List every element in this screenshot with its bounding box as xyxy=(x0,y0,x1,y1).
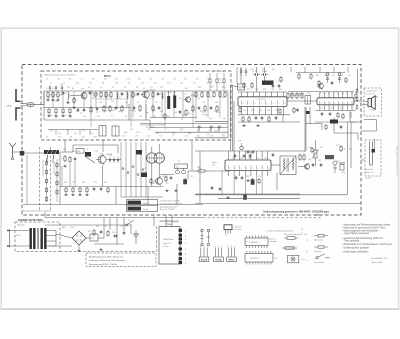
wire xyxy=(304,107,306,152)
svg-text:C3: C3 xyxy=(193,82,195,84)
vertical feed wire xyxy=(309,107,311,124)
capacitor C2 xyxy=(89,91,94,95)
ground xyxy=(85,193,88,195)
feed wires from enclosure top xyxy=(291,67,348,73)
svg-text:R63: R63 xyxy=(82,182,85,184)
coil L3 xyxy=(127,93,128,99)
svg-text:2k2: 2k2 xyxy=(111,101,114,103)
wire xyxy=(24,152,44,154)
svg-text:T5: T5 xyxy=(86,149,88,151)
svg-text:C42: C42 xyxy=(259,110,262,112)
svg-text:C14: C14 xyxy=(185,135,188,137)
svg-text:BC238: BC238 xyxy=(201,260,208,262)
wire xyxy=(151,147,153,153)
capacitor C40 xyxy=(320,163,323,167)
oscillator loop wire xyxy=(73,145,118,153)
resistor R45 xyxy=(310,73,312,80)
ground xyxy=(246,179,249,181)
svg-text:R61: R61 xyxy=(64,182,67,184)
IC2 audio power amplifier xyxy=(317,98,354,105)
FM tuner module dashed box xyxy=(41,71,231,140)
wire xyxy=(361,159,365,161)
svg-text:68: 68 xyxy=(128,82,130,84)
value labels xyxy=(316,75,351,110)
svg-text:Det.: Det. xyxy=(212,164,216,167)
svg-text:R21: R21 xyxy=(247,89,250,91)
FM-AM link verticals xyxy=(121,142,146,197)
IC3 stereo decoder xyxy=(225,160,271,171)
capacitor C6 xyxy=(77,108,80,112)
wire xyxy=(347,168,349,195)
svg-text:C9: C9 xyxy=(124,87,126,89)
svg-text:C16: C16 xyxy=(182,115,185,117)
wire xyxy=(10,230,30,232)
FM dipole antenna xyxy=(15,89,20,121)
resistor R16 xyxy=(48,108,50,115)
svg-text:Sicherungswiderstand: Sicherungswiderstand xyxy=(284,233,302,236)
svg-text:R9: R9 xyxy=(136,87,138,89)
wire xyxy=(109,218,111,231)
power value labels xyxy=(62,220,130,234)
svg-text:12k: 12k xyxy=(125,102,128,104)
svg-text:220: 220 xyxy=(55,101,58,103)
link rail wire xyxy=(121,196,163,198)
svg-text:R73: R73 xyxy=(336,145,339,147)
wire xyxy=(55,231,57,247)
wire xyxy=(149,120,151,128)
svg-text:TP1: TP1 xyxy=(238,141,241,143)
svg-text:R67: R67 xyxy=(152,183,155,185)
svg-text:M510: M510 xyxy=(104,74,111,78)
svg-text:100µ: 100µ xyxy=(341,172,345,174)
AF driver bus wire xyxy=(195,150,305,152)
svg-text:1n5: 1n5 xyxy=(58,133,61,135)
svg-text:5p6: 5p6 xyxy=(180,129,183,131)
capacitor C34 xyxy=(93,187,96,191)
svg-text:IC4: IC4 xyxy=(88,231,91,233)
wire xyxy=(365,104,369,106)
resistor R40 xyxy=(287,92,289,99)
ground xyxy=(99,248,102,250)
svg-text:7: 7 xyxy=(348,103,349,105)
wire xyxy=(102,140,104,152)
wire xyxy=(86,237,90,239)
resistor R44 xyxy=(298,73,300,80)
svg-text:Prüfpunkt: Prüfpunkt xyxy=(314,250,322,253)
transistor T3 xyxy=(184,95,197,103)
svg-text:C52: C52 xyxy=(348,75,351,77)
chassis dashed enclosure xyxy=(22,65,361,216)
capacitor C26 xyxy=(340,125,343,129)
feed rail wire xyxy=(306,123,322,125)
svg-text:– Spannungen mit Röhrenvoltmet: – Spannungen mit Röhrenvoltmeter geg. Ma… xyxy=(342,224,391,227)
loudspeaker dashed box xyxy=(364,88,382,116)
supply rail wire xyxy=(45,217,203,219)
svg-text:B40: B40 xyxy=(62,227,65,229)
svg-text:gegen Masse gemessen: gegen Masse gemessen xyxy=(344,233,370,235)
resistor R22 xyxy=(109,105,111,112)
rail junction wires xyxy=(94,243,124,245)
FM agc bus wire xyxy=(150,127,228,129)
resistor R14 xyxy=(219,91,221,98)
svg-text:L4: L4 xyxy=(206,82,208,84)
svg-text:8: 8 xyxy=(353,103,354,105)
svg-text:C75: C75 xyxy=(94,182,97,184)
svg-text:D4: D4 xyxy=(240,69,242,71)
svg-text:R32: R32 xyxy=(267,110,270,112)
osc coil block xyxy=(85,152,91,157)
stage separator wires xyxy=(91,91,193,127)
svg-text:5p6: 5p6 xyxy=(124,132,127,134)
svg-text:1n5: 1n5 xyxy=(221,97,224,99)
IC2 lower pin wires xyxy=(315,105,356,111)
IC3 upper pin wires xyxy=(229,151,268,160)
diode D1 xyxy=(113,235,118,237)
wire xyxy=(355,92,357,94)
headphone jack dashed box xyxy=(365,140,381,176)
svg-text:C65: C65 xyxy=(264,158,267,160)
svg-text:47p: 47p xyxy=(76,111,79,113)
IC1 lower pin wires xyxy=(238,107,290,115)
dark block xyxy=(136,150,142,155)
svg-text:3n3: 3n3 xyxy=(58,78,61,80)
resistor R48 xyxy=(337,112,339,118)
wire xyxy=(199,151,201,203)
svg-text:Taste gedrückt: Taste gedrückt xyxy=(344,240,359,243)
FM rail wire xyxy=(195,120,228,122)
svg-text:R65: R65 xyxy=(104,182,107,184)
resistor R29 xyxy=(204,105,206,112)
transistor T7 xyxy=(303,163,310,170)
resistor R7 xyxy=(110,91,112,98)
band switch dashed rail xyxy=(50,147,52,211)
svg-text:1n: 1n xyxy=(160,93,162,95)
svg-text:D6: D6 xyxy=(272,69,274,71)
wire xyxy=(264,76,266,81)
tone pot xyxy=(333,161,337,173)
svg-text:C33: C33 xyxy=(255,89,258,91)
svg-text:– Spannungswerte ohne Modulati: – Spannungswerte ohne Modulation xyxy=(342,229,379,232)
svg-text:b: b xyxy=(231,246,232,248)
ferrite rod antenna xyxy=(44,150,59,155)
vertical feed wire xyxy=(305,107,307,151)
svg-text:C3: C3 xyxy=(172,135,174,137)
audio out bus xyxy=(195,202,361,204)
resistor R66 xyxy=(340,145,346,152)
dark marker xyxy=(306,111,310,114)
wire xyxy=(141,94,143,96)
DIP package IC1 pinout xyxy=(245,236,268,249)
capacitor C23 xyxy=(331,81,334,85)
svg-text:3n3: 3n3 xyxy=(161,78,164,80)
svg-text:C82: C82 xyxy=(318,160,321,162)
extra FM value labels xyxy=(47,87,226,136)
resistor R3 xyxy=(57,91,63,98)
svg-text:TCA 4500: TCA 4500 xyxy=(249,241,259,244)
transistor pinout BC308 xyxy=(214,246,224,262)
resistor with leads xyxy=(284,233,302,239)
filter cap xyxy=(253,71,261,76)
svg-text:330: 330 xyxy=(188,133,191,135)
capacitor C9 xyxy=(115,106,118,110)
svg-text:C1: C1 xyxy=(46,88,48,90)
svg-text:C35: C35 xyxy=(271,89,274,91)
wire xyxy=(362,104,365,106)
svg-text:IC2: IC2 xyxy=(275,258,278,260)
svg-text:UKW-Tuner: UKW-Tuner xyxy=(163,239,174,241)
resistor R24 xyxy=(139,105,141,112)
transistor T2 xyxy=(141,90,155,99)
svg-text:zur Anschlußbelegung der ICs: zur Anschlußbelegung der ICs xyxy=(267,229,294,232)
svg-text:L5: L5 xyxy=(112,87,114,89)
wire xyxy=(333,118,335,122)
resistor R4 xyxy=(73,97,75,104)
svg-text:C71: C71 xyxy=(72,151,75,153)
svg-text:Netzspannung 220 V~ / 50 Hz: Netzspannung 220 V~ / 50 Hz xyxy=(89,263,117,266)
wire xyxy=(52,159,54,163)
wire xyxy=(64,140,66,152)
resistor R8 xyxy=(132,91,138,98)
svg-text:C54: C54 xyxy=(320,108,323,110)
variable capacitor link xyxy=(96,98,128,100)
svg-text:C61: C61 xyxy=(232,158,235,160)
resistor R52 xyxy=(258,178,260,184)
wire xyxy=(365,101,369,103)
svg-text:C7: C7 xyxy=(100,87,102,89)
resistor R27 xyxy=(185,109,187,116)
resistor R13 xyxy=(213,91,215,98)
svg-text:4,7: 4,7 xyxy=(75,100,77,102)
switch rail wire xyxy=(45,224,132,226)
filter cap xyxy=(261,70,268,76)
transistor pinout BF199 xyxy=(227,246,237,262)
svg-text:4: 4 xyxy=(261,103,262,105)
decoupling capacitor stubs xyxy=(240,68,248,76)
svg-text:C81: C81 xyxy=(308,159,311,161)
FM right upper labels xyxy=(206,70,224,88)
svg-text:2: 2 xyxy=(325,103,326,105)
svg-text:2x: 2x xyxy=(301,229,303,231)
wire xyxy=(43,91,45,120)
svg-text:c: c xyxy=(221,246,222,248)
svg-text:330: 330 xyxy=(97,116,100,118)
svg-text:10k: 10k xyxy=(180,82,183,84)
capacitor C14 xyxy=(210,106,213,110)
right feed wire xyxy=(350,112,352,118)
svg-text:330: 330 xyxy=(92,98,95,100)
tuner connector box xyxy=(159,227,180,265)
svg-text:R16: R16 xyxy=(222,87,225,89)
svg-text:5p: 5p xyxy=(92,92,94,94)
svg-text:Buchse: Buchse xyxy=(366,178,372,180)
capacitor C16 xyxy=(278,84,281,88)
capacitor C35 xyxy=(100,187,103,191)
capacitor C4 xyxy=(137,92,140,96)
dial lamp column xyxy=(207,229,210,246)
transistor pinout BC238 xyxy=(199,246,209,262)
TO-92 package drawing xyxy=(224,225,232,237)
svg-text:5p6: 5p6 xyxy=(47,97,50,99)
svg-text:12k: 12k xyxy=(155,102,158,104)
svg-text:10k: 10k xyxy=(342,148,345,150)
svg-text:1k5: 1k5 xyxy=(207,78,210,80)
svg-text:2k2: 2k2 xyxy=(99,102,102,104)
AM/FM switch block xyxy=(141,173,147,178)
svg-text:C73: C73 xyxy=(72,182,75,184)
resistor R39 xyxy=(293,107,295,114)
IF can xyxy=(99,126,106,137)
supply feed wire right xyxy=(357,69,359,92)
svg-text:– Widerstände in Ω, Kondensato: – Widerstände in Ω, Kondensatoren in pF/… xyxy=(342,243,394,246)
AM value labels xyxy=(61,149,200,185)
svg-text:R75: R75 xyxy=(349,149,352,151)
resistor R12 xyxy=(207,91,209,98)
connector feed wires xyxy=(154,215,172,227)
svg-text:12k: 12k xyxy=(48,112,51,114)
svg-text:2: 2 xyxy=(235,168,236,170)
svg-text:3n3: 3n3 xyxy=(138,78,141,80)
FM rail wire xyxy=(140,122,228,124)
wire xyxy=(67,91,69,93)
wire xyxy=(256,67,258,73)
AM cluster drop wires xyxy=(27,155,75,205)
output network parts xyxy=(356,88,358,110)
svg-text:Ratio-: Ratio- xyxy=(212,161,218,164)
svg-text:Alle Spannungen gem. mV/±10%: Alle Spannungen gem. mV/±10% xyxy=(45,74,76,77)
svg-text:Netzschalter: Netzschalter xyxy=(314,261,324,264)
resistor R21 xyxy=(103,105,105,112)
wire xyxy=(176,184,178,205)
svg-text:auftrennen / Sicherung T100 ei: auftrennen / Sicherung T100 einsetzen xyxy=(89,259,126,262)
capacitor C11 xyxy=(158,106,161,110)
wire xyxy=(187,171,189,180)
svg-text:10,7 MHz: 10,7 MHz xyxy=(146,127,155,129)
svg-text:7: 7 xyxy=(263,168,264,170)
IF can xyxy=(112,126,119,136)
FM rail wire xyxy=(195,137,228,139)
capacitor C10 xyxy=(133,106,136,110)
svg-text:100: 100 xyxy=(160,111,163,113)
electrolytic cap xyxy=(339,163,345,170)
resistor R55 xyxy=(311,147,313,153)
resistor R18 xyxy=(62,108,64,115)
svg-text:4 x 0,5: 4 x 0,5 xyxy=(163,246,169,248)
svg-text:Netztrafo: Netztrafo xyxy=(17,224,25,227)
ground xyxy=(68,114,71,116)
svg-text:2p: 2p xyxy=(65,92,67,94)
svg-text:1: 1 xyxy=(321,103,322,105)
svg-text:R8: R8 xyxy=(92,78,94,80)
connection rail wire xyxy=(229,85,231,151)
svg-text:Chassis: Chassis xyxy=(143,203,150,205)
svg-text:4p7: 4p7 xyxy=(154,82,157,84)
wire xyxy=(103,218,105,239)
coil L2 xyxy=(117,93,118,99)
wire xyxy=(13,151,21,153)
wire xyxy=(70,95,79,97)
svg-text:2x Sicherung T 200 mA: 2x Sicherung T 200 mA xyxy=(160,200,180,203)
svg-text:3n3: 3n3 xyxy=(197,135,200,137)
upper label rows xyxy=(46,78,225,138)
second dashed border xyxy=(203,217,322,219)
svg-text:1k5: 1k5 xyxy=(222,135,225,137)
svg-text:10n: 10n xyxy=(104,111,107,113)
svg-text:R41: R41 xyxy=(316,75,319,77)
AM lower bus wire xyxy=(60,186,163,188)
svg-text:R5: R5 xyxy=(50,115,52,117)
svg-text:Bei Netzspannung 110V~ Brücke: Bei Netzspannung 110V~ Brücke 1-2 xyxy=(89,256,124,259)
small parts row xyxy=(109,157,119,163)
svg-text:R42: R42 xyxy=(324,75,327,77)
svg-text:S1: S1 xyxy=(145,168,147,170)
audio value labels xyxy=(308,145,352,174)
svg-text:22n: 22n xyxy=(89,82,92,84)
svg-text:20 cm² 4 Ω: 20 cm² 4 Ω xyxy=(366,92,376,95)
ground xyxy=(63,165,66,167)
regulator block xyxy=(90,234,98,241)
ground xyxy=(226,196,229,198)
capacitor C7 xyxy=(83,108,86,112)
capacitor C8 xyxy=(96,107,99,111)
lower rail wire xyxy=(315,121,356,123)
svg-text:2k2: 2k2 xyxy=(197,98,200,100)
wire xyxy=(238,121,300,123)
svg-text:2k2: 2k2 xyxy=(161,97,164,99)
svg-text:Netzspannung 220 V~: Netzspannung 220 V~ xyxy=(160,205,180,208)
svg-text:R15: R15 xyxy=(200,111,203,113)
svg-text:C41: C41 xyxy=(243,110,246,112)
note box dashed xyxy=(86,253,156,267)
capacitor with node xyxy=(326,73,329,83)
ground xyxy=(165,189,168,191)
issue note xyxy=(371,257,388,264)
FM mid rail wire xyxy=(44,107,131,109)
svg-text:Lautsprecher: Lautsprecher xyxy=(366,90,377,93)
power supply dashed box xyxy=(15,222,60,252)
svg-text:C79: C79 xyxy=(190,176,193,178)
svg-text:c: c xyxy=(234,246,235,248)
coil L1 xyxy=(68,93,69,99)
wire xyxy=(233,101,235,151)
svg-text:C8: C8 xyxy=(96,112,98,114)
ceramic filter block xyxy=(262,81,274,85)
capacitor C38 xyxy=(219,187,222,191)
capacitor C22 xyxy=(252,150,255,154)
capacitor C27 xyxy=(234,154,237,158)
resistor R1 xyxy=(47,91,51,98)
svg-text:47p: 47p xyxy=(90,133,93,135)
coil L4 xyxy=(162,93,163,99)
svg-text:68: 68 xyxy=(69,78,71,80)
svg-text:2k2: 2k2 xyxy=(185,88,188,90)
svg-text:7: 7 xyxy=(346,91,347,93)
legend symbols column xyxy=(304,234,331,262)
wire xyxy=(145,104,147,120)
wire xyxy=(59,187,61,205)
svg-text:12k: 12k xyxy=(82,130,85,132)
svg-text:Drucktastenschalter: Drucktastenschalter xyxy=(41,160,44,177)
wire xyxy=(290,94,303,96)
svg-text:5p6: 5p6 xyxy=(146,112,149,114)
wire xyxy=(276,173,278,191)
svg-text:4,7: 4,7 xyxy=(137,102,139,104)
ground xyxy=(174,189,177,191)
resistor R19 xyxy=(69,108,71,115)
svg-text:7: 7 xyxy=(279,103,280,105)
ground xyxy=(77,249,80,251)
svg-text:BC308: BC308 xyxy=(215,260,222,262)
input coupling cap xyxy=(20,151,24,155)
